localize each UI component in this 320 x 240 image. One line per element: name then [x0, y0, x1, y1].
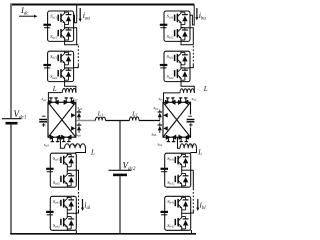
svg-text:L1: L1 [131, 110, 137, 117]
switch a21 [58, 51, 71, 66]
mid stub [181, 67, 190, 69]
switch sb4 [166, 135, 175, 142]
arrow Idc [19, 15, 35, 17]
submodule SMb3 [165, 153, 191, 187]
switch b31 [175, 153, 188, 168]
mid stub [65, 67, 74, 69]
capacitor plate thin [160, 27, 166, 29]
capacitor plate thin [47, 171, 53, 173]
wire link to SMa4 mid [76, 211, 79, 213]
inductor L arm b lower [180, 144, 196, 148]
switch b22 [175, 67, 188, 82]
capacitor plate thick [43, 64, 51, 66]
arrow ibu [196, 8, 198, 18]
capacitor A plate1 [39, 119, 47, 121]
switch a11 [58, 11, 71, 26]
svg-text:sa1: sa1 [73, 96, 78, 102]
switch a41 [61, 196, 74, 211]
svg-text:Sb41: Sb41 [167, 199, 174, 205]
wire xbox A to L lower [60, 137, 64, 148]
switch sa2 [49, 98, 58, 105]
wire link to SMb4 mid [191, 211, 194, 213]
switch sa6 [71, 123, 81, 133]
diagonal A2 [48, 102, 76, 137]
capacitor plate thick [161, 211, 169, 213]
wire bus to SMa1 entry [73, 5, 77, 23]
svg-text:L: L [203, 85, 208, 93]
capacitor plate thick [43, 24, 51, 26]
wire chain ellipsis dashed a upper [77, 46, 79, 64]
svg-text:L1: L1 [97, 110, 103, 117]
capacitor B plus [189, 123, 193, 127]
wire SMb1 bottom link [181, 41, 193, 44]
wire chain ellipsis dashed a lower [78, 189, 80, 212]
switch sb2 [179, 98, 188, 105]
arrow ibl [197, 199, 199, 208]
svg-text:sa2: sa2 [42, 96, 47, 102]
svg-text:sb4: sb4 [158, 141, 163, 147]
svg-text:Sb31: Sb31 [167, 156, 174, 162]
capacitor plate thick [46, 211, 54, 213]
svg-text:Sa41: Sa41 [53, 199, 60, 205]
mid stub [182, 169, 191, 171]
inductor L arm a lower [65, 144, 86, 148]
svg-text:sa5: sa5 [78, 105, 83, 111]
capacitor plate thick [160, 64, 168, 66]
svg-text:L: L [197, 149, 202, 157]
svg-text:sa3: sa3 [44, 142, 49, 148]
mid link [64, 25, 66, 27]
mid stub [65, 27, 74, 29]
svg-text:Sa42: Sa42 [53, 223, 60, 229]
wire bus to SMb1 entry [191, 5, 195, 26]
arrow ial [82, 199, 84, 208]
switch sb6 [158, 123, 168, 133]
switch sa3 [50, 135, 59, 142]
inductor L arm a upper [62, 88, 76, 92]
svg-text:Sa12: Sa12 [50, 34, 57, 40]
svg-text:Sa32: Sa32 [53, 180, 60, 186]
submodule SMb2 [164, 51, 190, 81]
svg-text:L: L [90, 148, 95, 156]
wire xbox B to L lower [178, 137, 181, 148]
wire mid bus [106, 120, 130, 122]
wire chain ellipsis dashed b upper [192, 46, 194, 64]
capacitor plate thick [160, 24, 168, 26]
switch sa4 [62, 135, 71, 142]
svg-text:sb2: sb2 [192, 96, 197, 102]
switch a42 [61, 215, 74, 230]
mid stub [181, 27, 190, 29]
capacitor B plate1 [187, 119, 195, 121]
switch a32 [61, 172, 74, 187]
svg-text:sa6: sa6 [76, 132, 81, 138]
capacitor A minus [42, 115, 46, 117]
wire SMb4 to bottom bus [190, 231, 193, 234]
wire left dc bus lower [10, 124, 12, 233]
capacitor plate thin [161, 171, 167, 173]
mid stub [67, 212, 76, 214]
capacitor A plus [42, 123, 46, 127]
mid link [180, 25, 182, 27]
wire centre leg lower [119, 176, 121, 234]
wire mid bus to xbox B [139, 120, 160, 122]
svg-text:Sa22: Sa22 [50, 74, 57, 80]
wire link to SMb2 mid [190, 64, 193, 68]
wire SMb2 out to L [181, 82, 194, 93]
svg-text:L: L [52, 85, 57, 93]
cross-connected cell A [48, 102, 76, 137]
switch sb5 [158, 110, 168, 120]
switch a22 [58, 67, 71, 82]
svg-text:Sb42: Sb42 [167, 223, 174, 229]
wire left dc bus upper [10, 4, 12, 118]
mid link [66, 168, 68, 172]
capacitor plate thin [44, 27, 50, 29]
svg-text:Sb21: Sb21 [167, 54, 174, 60]
submodule SMb4 [165, 196, 191, 230]
wire L to SMb3 [191, 148, 197, 153]
wire SMa1 bottom link [65, 41, 79, 44]
switch b11 [175, 11, 188, 26]
wire L to xbox A [48, 93, 62, 103]
capacitor A plate2 [39, 121, 47, 123]
switch sb1 [166, 98, 175, 105]
arrow iau [79, 8, 81, 19]
switch b32 [175, 172, 188, 187]
svg-text:Sb32: Sb32 [167, 180, 174, 186]
battery Vdc1 long plate [2, 118, 22, 120]
inductor L1 left [96, 117, 106, 120]
capacitor plate thin [44, 67, 50, 69]
svg-text:sb6: sb6 [152, 132, 157, 138]
mid stub [182, 212, 191, 214]
capacitor plate thick [46, 168, 54, 170]
wire L to SMa3 [76, 148, 86, 153]
submodule SMa3 [50, 153, 76, 187]
wire SMa3 out [76, 170, 79, 188]
mid link [66, 211, 68, 215]
switch a12 [58, 26, 71, 41]
switch b42 [175, 215, 188, 230]
capacitor B minus [188, 115, 192, 117]
svg-text:Sa11: Sa11 [50, 14, 57, 20]
cross-connected cell B [163, 102, 191, 137]
switch sb3 [179, 135, 188, 142]
switch a31 [61, 153, 74, 168]
switch b12 [175, 26, 188, 41]
switch b21 [175, 51, 188, 66]
svg-text:Sb12: Sb12 [167, 34, 174, 40]
wire SMa4 to bottom bus [75, 231, 78, 234]
wire top dc bus [10, 3, 194, 5]
diagonal B1 [163, 102, 191, 137]
submodule SMb1 [164, 11, 190, 41]
switch sa1 [64, 98, 73, 105]
battery Vdc1 short plate [6, 122, 18, 125]
inductor L arm b upper [180, 89, 194, 93]
diagonal B2 [163, 102, 191, 137]
inductor L1 right [129, 117, 139, 121]
wire SMb1 mid out [190, 28, 193, 45]
svg-text:Sa21: Sa21 [50, 54, 57, 60]
capacitor plate thin [161, 214, 167, 216]
svg-text:sb5: sb5 [154, 105, 159, 111]
wire centre leg upper [119, 121, 121, 170]
wire link to SMa2 mid [73, 64, 78, 68]
submodule SMa1 [48, 11, 74, 41]
svg-text:Sb22: Sb22 [167, 74, 174, 80]
submodule SMa2 [48, 51, 74, 81]
wire SMa2 out to L [65, 82, 76, 93]
mid link [181, 211, 183, 215]
diagonal A1 [48, 102, 76, 137]
svg-text:Sb11: Sb11 [167, 14, 174, 20]
wire L to xbox B [164, 93, 181, 102]
capacitor B plate2 [187, 121, 195, 123]
wire chain ellipsis dashed b lower [192, 189, 194, 212]
switch b41 [175, 196, 188, 211]
capacitor plate thick [161, 168, 169, 170]
svg-text:sb1: sb1 [159, 96, 164, 102]
mid link [64, 65, 66, 67]
wire bottom dc bus [10, 233, 196, 235]
capacitor plate thin [47, 214, 53, 216]
mid stub [67, 169, 76, 171]
mid link [180, 65, 182, 67]
switch sa5 [71, 110, 81, 120]
wire SMb3 out [191, 170, 194, 188]
wire SMa1 mid out [73, 28, 77, 45]
battery Vdc2 short plate [113, 174, 127, 177]
submodule SMa4 [50, 196, 76, 230]
mid link [181, 168, 183, 172]
capacitor plate thin [160, 67, 166, 69]
battery Vdc2 long plate [109, 169, 132, 171]
wire xbox A output [76, 120, 95, 122]
svg-text:Sa31: Sa31 [53, 156, 60, 162]
